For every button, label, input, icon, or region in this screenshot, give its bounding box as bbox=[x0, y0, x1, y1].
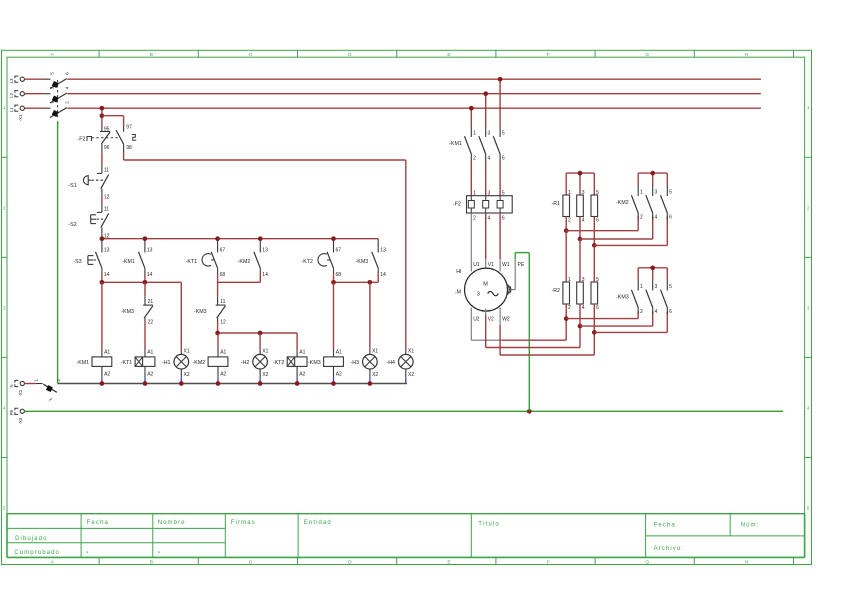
svg-text:98: 98 bbox=[126, 145, 132, 151]
svg-text:-KM3: -KM3 bbox=[616, 295, 629, 301]
contactor KM1 pole 3-4 bbox=[479, 127, 491, 162]
svg-text:-S2: -S2 bbox=[68, 222, 76, 228]
svg-text:A2: A2 bbox=[147, 372, 153, 378]
node rail tap pole2 bbox=[483, 91, 488, 96]
svg-text:Comprobado: Comprobado bbox=[14, 550, 60, 556]
node R1 star point bbox=[578, 171, 583, 176]
node R2 bottom junction bbox=[592, 330, 597, 335]
svg-text:-KM1: -KM1 bbox=[449, 141, 462, 147]
lamp H4 bbox=[386, 348, 414, 383]
lamp H3 bbox=[351, 348, 379, 383]
svg-text:3: 3 bbox=[477, 291, 480, 297]
node rail tap pole1 bbox=[469, 106, 474, 111]
svg-text:11: 11 bbox=[104, 167, 109, 173]
svg-text:-KT2: -KT2 bbox=[273, 360, 285, 366]
svg-text:X1: X1 bbox=[262, 348, 268, 354]
motor M 3-phase bbox=[455, 262, 525, 322]
svg-text:5: 5 bbox=[669, 190, 672, 196]
svg-text:2: 2 bbox=[568, 305, 571, 311]
svg-text:X2: X2 bbox=[184, 372, 190, 378]
svg-text:1: 1 bbox=[3, 105, 6, 110]
svg-text:M: M bbox=[483, 281, 488, 287]
node bus junction bbox=[143, 236, 148, 241]
main switch Q1 pole 1-2 bbox=[25, 101, 70, 118]
terminal L3 bbox=[9, 76, 24, 83]
svg-text:-KT2: -KT2 bbox=[302, 259, 314, 265]
svg-text:4: 4 bbox=[655, 214, 658, 220]
svg-text:V1: V1 bbox=[488, 262, 494, 268]
contactor KM2 pole 1-2 bbox=[616, 186, 643, 221]
svg-text:X2: X2 bbox=[262, 372, 268, 378]
svg-text:3: 3 bbox=[582, 190, 585, 196]
svg-text:-KM3: -KM3 bbox=[356, 259, 369, 265]
svg-text:12: 12 bbox=[104, 194, 110, 200]
svg-text:-KM1: -KM1 bbox=[122, 259, 135, 265]
svg-text:13: 13 bbox=[380, 247, 386, 253]
F2 trip box and label bbox=[78, 136, 120, 142]
svg-text:L2: L2 bbox=[9, 92, 14, 97]
svg-text:A1: A1 bbox=[299, 350, 305, 356]
wire R1 junction down to R2 pole2 bbox=[579, 239, 581, 282]
svg-text:A1: A1 bbox=[336, 350, 342, 356]
svg-text:3: 3 bbox=[655, 190, 658, 196]
node bus junction S3 bbox=[100, 236, 105, 241]
wire KT1-68 down bbox=[217, 274, 219, 297]
svg-text:-S1: -S1 bbox=[68, 183, 76, 189]
svg-text:E: E bbox=[447, 52, 450, 58]
node neutral bus junction bbox=[179, 381, 184, 386]
wire contact bus bbox=[102, 238, 378, 240]
svg-text:4: 4 bbox=[807, 405, 810, 410]
terminal L1 bbox=[9, 105, 24, 121]
svg-text:1: 1 bbox=[568, 190, 571, 196]
svg-text:-KM2: -KM2 bbox=[238, 259, 251, 265]
node neutral bus junction bbox=[100, 381, 105, 386]
node R1 bottom junction bbox=[564, 228, 569, 233]
svg-text:6: 6 bbox=[596, 305, 599, 311]
terminal PE bbox=[9, 408, 24, 424]
svg-text:1: 1 bbox=[473, 131, 476, 137]
timer coil KT1 bbox=[121, 350, 155, 384]
contactor KM3 pole 3-4 bbox=[646, 280, 658, 315]
svg-text:3: 3 bbox=[3, 305, 6, 310]
svg-text:H: H bbox=[745, 559, 749, 565]
node neutral bus junction bbox=[216, 381, 221, 386]
wire motor W2 to R2 bottom bbox=[500, 308, 594, 355]
wire S1 to S2 bbox=[101, 196, 103, 205]
node neutral bus junction bbox=[295, 381, 300, 386]
wire KM1 pole3 riser bbox=[499, 79, 501, 126]
svg-text:-KM2: -KM2 bbox=[193, 360, 206, 366]
node control tap bbox=[100, 106, 105, 111]
svg-text:-KM1: -KM1 bbox=[76, 360, 89, 366]
lamp H2 bbox=[241, 348, 269, 383]
wire node B down to KM2 coil bbox=[217, 333, 219, 350]
wire F2 pole3 to motor W1 bbox=[499, 213, 501, 272]
node A at KM1 bbox=[143, 280, 148, 285]
coil KM3 bbox=[308, 350, 343, 384]
svg-text:-S3: -S3 bbox=[73, 259, 81, 265]
svg-text:14: 14 bbox=[262, 272, 268, 278]
main switch N pole bbox=[25, 379, 62, 401]
contactor KM3 pole 1-2 bbox=[616, 280, 643, 315]
svg-text:12: 12 bbox=[220, 319, 226, 325]
svg-text:4: 4 bbox=[582, 218, 585, 224]
wire node A down to KM1 coil bbox=[101, 282, 103, 349]
node R1 bottom junction bbox=[592, 243, 597, 248]
wire R2 junction to KM3 pole3 bbox=[594, 312, 667, 333]
node C at KT2 bbox=[331, 280, 336, 285]
svg-text:14: 14 bbox=[380, 272, 386, 278]
svg-text:A2: A2 bbox=[104, 372, 110, 378]
pushbutton S1 (NC, mushroom) bbox=[68, 166, 109, 200]
wire node B down to KT2 coil bbox=[296, 333, 298, 350]
contactor KM2 pole 5-6 bbox=[661, 186, 673, 221]
svg-text:D: D bbox=[348, 559, 352, 565]
svg-text:4: 4 bbox=[582, 305, 585, 311]
svg-text:A2: A2 bbox=[336, 372, 342, 378]
svg-text:6: 6 bbox=[669, 309, 672, 315]
wire rail L2 bbox=[67, 93, 761, 95]
main switch mechanical link bbox=[57, 80, 59, 127]
resistor R1 pole3 bbox=[591, 190, 599, 224]
svg-text:Nombre: Nombre bbox=[158, 520, 186, 526]
svg-text:X2: X2 bbox=[372, 372, 378, 378]
node earth junction bbox=[527, 409, 532, 414]
svg-text:N: N bbox=[9, 384, 14, 387]
svg-text:1: 1 bbox=[568, 277, 571, 283]
svg-text:HI: HI bbox=[456, 269, 461, 275]
wire R2 pole2 bottom bbox=[579, 304, 581, 326]
wire earth bus green bbox=[24, 410, 783, 412]
svg-text:4: 4 bbox=[3, 405, 6, 410]
resistor R1 pole2 bbox=[577, 190, 585, 224]
wire S3 bottom to node A bbox=[101, 274, 103, 283]
svg-text:2: 2 bbox=[3, 205, 6, 210]
svg-text:5: 5 bbox=[502, 191, 505, 197]
svg-text:1: 1 bbox=[640, 284, 643, 290]
svg-text:4: 4 bbox=[488, 155, 491, 161]
svg-text:14: 14 bbox=[147, 272, 153, 278]
node neutral bus junction bbox=[331, 381, 336, 386]
svg-text:C: C bbox=[249, 559, 253, 565]
wire motor U2 to R2 bottom bbox=[471, 308, 566, 341]
svg-text:-H3: -H3 bbox=[351, 360, 360, 366]
svg-text:-X3: -X3 bbox=[18, 417, 23, 424]
node neutral bus junction bbox=[258, 381, 263, 386]
svg-text:-KM3: -KM3 bbox=[121, 309, 134, 315]
svg-text:-H1: -H1 bbox=[162, 360, 171, 366]
svg-text:1: 1 bbox=[640, 190, 643, 196]
wire R1 junction to KM2 pole3 bbox=[594, 217, 667, 246]
svg-text:13: 13 bbox=[104, 247, 110, 253]
wire F2-98 to lamp H4 bbox=[124, 152, 406, 350]
wire R1 junction to KM2 pole1 bbox=[566, 217, 638, 231]
wire node B horizontal bbox=[218, 332, 298, 334]
node KM2 star point bbox=[650, 171, 655, 176]
svg-text:A2: A2 bbox=[220, 372, 226, 378]
wire R2 junction to KM3 pole2 bbox=[580, 312, 653, 327]
svg-text:-X1: -X1 bbox=[18, 114, 23, 121]
wire rail L1 bbox=[67, 107, 761, 109]
wire KM2-14 down and across to KT1 column bbox=[218, 274, 261, 283]
svg-text:F: F bbox=[547, 559, 550, 565]
lamp H1 bbox=[162, 348, 190, 383]
node KM3 star point bbox=[650, 265, 655, 270]
contact KM1 13-14 (NO) bbox=[122, 239, 152, 278]
svg-text:F: F bbox=[547, 52, 550, 58]
terminal L2 bbox=[9, 91, 24, 98]
svg-text:97: 97 bbox=[126, 125, 132, 131]
svg-text:W2: W2 bbox=[502, 317, 510, 323]
wire R2 pole3 bottom bbox=[593, 304, 595, 332]
wire node A horizontal bbox=[102, 281, 181, 283]
svg-text:2: 2 bbox=[473, 155, 476, 161]
svg-text:5: 5 bbox=[596, 277, 599, 283]
svg-text:95: 95 bbox=[104, 126, 110, 132]
resistor R2 pole1 bbox=[551, 277, 571, 311]
svg-text:A1: A1 bbox=[104, 350, 110, 356]
wire node C down to lamp H3 bbox=[369, 282, 371, 349]
svg-text:Título: Título bbox=[478, 521, 500, 527]
wire F2 pole2 to motor V1 bbox=[485, 213, 487, 269]
svg-text:PE: PE bbox=[518, 262, 525, 268]
svg-text:-KT1: -KT1 bbox=[121, 360, 133, 366]
wire KM3 star bus bbox=[638, 268, 667, 280]
wire R1 junction down to R2 pole3 bbox=[593, 245, 595, 282]
svg-text:Núm:: Núm: bbox=[741, 522, 760, 528]
wire KM1 pole2 to overload F2 bbox=[485, 161, 487, 197]
svg-text:2: 2 bbox=[640, 309, 643, 315]
svg-text:A1: A1 bbox=[147, 350, 153, 356]
node bus junction bbox=[215, 236, 220, 241]
svg-text:3: 3 bbox=[582, 277, 585, 283]
svg-text:W1: W1 bbox=[502, 262, 510, 268]
svg-text:H: H bbox=[745, 52, 749, 58]
wire node A down to KM3 NC 21 bbox=[144, 282, 146, 296]
svg-text:5: 5 bbox=[669, 284, 672, 290]
wire S2 to bus bbox=[101, 235, 103, 239]
svg-text:B: B bbox=[150, 559, 153, 565]
svg-text:-R1: -R1 bbox=[551, 201, 560, 207]
contactor KM1 pole 1-2 bbox=[449, 127, 476, 162]
terminal N bbox=[9, 380, 24, 396]
svg-text:6: 6 bbox=[502, 216, 505, 222]
svg-text:-KM3: -KM3 bbox=[194, 309, 207, 315]
svg-text:11: 11 bbox=[104, 206, 109, 212]
resistor R2 pole2 bbox=[577, 277, 585, 311]
wire earth green vertical bbox=[57, 122, 59, 384]
wire motor V2 to R2 bottom bbox=[486, 309, 580, 348]
wire F2 pole1 to motor U1 (black) bbox=[470, 213, 472, 272]
wire R1 pole3 bottom bbox=[593, 217, 595, 246]
svg-text:U1: U1 bbox=[473, 262, 480, 268]
svg-text:6: 6 bbox=[669, 214, 672, 220]
wire R1 pole2 bottom bbox=[579, 217, 581, 240]
svg-text:14: 14 bbox=[104, 272, 110, 278]
svg-text:2: 2 bbox=[568, 218, 571, 224]
contactor KM2 pole 3-4 bbox=[646, 186, 658, 221]
svg-text:X1: X1 bbox=[372, 348, 378, 354]
svg-text:Dibujado: Dibujado bbox=[15, 536, 47, 542]
svg-text:67: 67 bbox=[220, 247, 226, 253]
svg-text:C: C bbox=[249, 52, 253, 58]
wire R1 junction down to R2 pole1 bbox=[565, 231, 567, 282]
node B at H2 column bbox=[258, 331, 263, 336]
contact KT1 67-68 (timed NO) bbox=[186, 239, 226, 278]
svg-text:A1: A1 bbox=[220, 350, 226, 356]
svg-text:X1: X1 bbox=[408, 348, 414, 354]
wire KM1 pole1 riser bbox=[470, 108, 472, 126]
svg-text:5: 5 bbox=[3, 505, 6, 510]
svg-text:-KM3: -KM3 bbox=[308, 360, 321, 366]
contact KM2 13-14 (NO) bbox=[238, 239, 268, 278]
node bus junction bbox=[331, 236, 336, 241]
svg-text:X2: X2 bbox=[408, 372, 414, 378]
pushbutton S3 (NO start) bbox=[73, 239, 109, 278]
svg-text:22: 22 bbox=[148, 319, 154, 325]
main switch Q1 pole 3-4 bbox=[25, 86, 70, 103]
svg-text:3: 3 bbox=[488, 191, 491, 197]
svg-text:-R2: -R2 bbox=[551, 288, 560, 294]
overload relay contact F2 95-96 (NC) bbox=[100, 126, 110, 152]
node neutral bus junction bbox=[368, 381, 373, 386]
svg-text:68: 68 bbox=[220, 272, 226, 278]
svg-text:68: 68 bbox=[336, 272, 342, 278]
svg-text:1: 1 bbox=[473, 191, 476, 197]
svg-text:5: 5 bbox=[596, 190, 599, 196]
svg-text:L3: L3 bbox=[9, 78, 14, 83]
svg-text:2: 2 bbox=[807, 205, 810, 210]
contact KM3 21-22 (NC) bbox=[121, 296, 153, 325]
wire KM2 star bus bbox=[638, 173, 667, 185]
contactor KM1 pole 5-6 bbox=[493, 127, 505, 162]
coil KM1 bbox=[76, 350, 111, 384]
svg-text:13: 13 bbox=[262, 247, 268, 253]
wire KM1 pole1 to overload F2 bbox=[470, 161, 472, 197]
wire KT2-68 down to node C bbox=[333, 274, 335, 283]
svg-text:PE: PE bbox=[9, 410, 14, 416]
timer coil KT2 bbox=[273, 350, 307, 384]
wire R2 junction to KM3 pole1 bbox=[566, 312, 638, 319]
svg-text:E: E bbox=[447, 559, 450, 565]
svg-text:B: B bbox=[150, 52, 153, 58]
svg-text:11: 11 bbox=[220, 299, 225, 305]
wire KM1 contact bottom to node A bbox=[144, 274, 146, 283]
wire F2-96 to S1 bbox=[101, 152, 103, 166]
wire neutral control bus bbox=[58, 383, 407, 385]
svg-text:-H4: -H4 bbox=[386, 360, 395, 366]
wire rail L3 bbox=[67, 78, 761, 80]
wire KM1 pole2 riser bbox=[485, 94, 487, 127]
node B at KM2 coil column bbox=[215, 331, 220, 336]
svg-text:2: 2 bbox=[640, 214, 643, 220]
wire motor PE to earth (green) bbox=[515, 253, 529, 412]
contact KM3 11-12 (NC) bbox=[194, 296, 226, 325]
svg-text:6: 6 bbox=[596, 218, 599, 224]
wire node B down to lamp H2 bbox=[259, 333, 261, 350]
svg-text:V2: V2 bbox=[488, 317, 494, 323]
wire R1 junction to KM2 pole2 bbox=[580, 217, 653, 240]
wire KM3 22 to KT1 coil bbox=[144, 322, 146, 350]
wire KM3-14 down and across bbox=[334, 274, 379, 283]
svg-text:G: G bbox=[646, 559, 650, 565]
wire R1 star bus bbox=[566, 173, 594, 195]
wire node A down to lamp H1 bbox=[180, 282, 182, 349]
wire R1 pole1 bottom bbox=[565, 217, 567, 231]
svg-text:3: 3 bbox=[807, 305, 810, 310]
svg-text:D: D bbox=[348, 52, 352, 58]
main switch Q1 pole 5-6 bbox=[25, 72, 70, 89]
svg-text:-M: -M bbox=[455, 289, 461, 295]
svg-text:Firmas: Firmas bbox=[231, 520, 256, 526]
svg-text:Archivo:: Archivo: bbox=[654, 546, 684, 552]
svg-text:Entidad: Entidad bbox=[304, 520, 332, 526]
svg-text:Fecha: Fecha bbox=[654, 522, 676, 528]
svg-text:67: 67 bbox=[336, 247, 342, 253]
svg-text:-F2: -F2 bbox=[78, 136, 86, 142]
node A at S3 bbox=[100, 280, 105, 285]
svg-text:5: 5 bbox=[807, 505, 810, 510]
svg-text:3: 3 bbox=[655, 284, 658, 290]
wire control tap from rail L1 bbox=[101, 108, 103, 126]
node R2 bottom junction bbox=[578, 324, 583, 329]
node R1 bottom junction bbox=[578, 237, 583, 242]
svg-text:96: 96 bbox=[104, 145, 110, 151]
node branch to F2 NO bbox=[100, 113, 105, 118]
node C at H3 column bbox=[368, 280, 373, 285]
svg-text:2: 2 bbox=[473, 216, 476, 222]
svg-text:6: 6 bbox=[502, 155, 505, 161]
svg-text:U2: U2 bbox=[473, 317, 480, 323]
pushbutton S2 (NC) bbox=[68, 205, 109, 239]
resistor R2 pole3 bbox=[591, 277, 599, 311]
node R2 bottom junction bbox=[564, 316, 569, 321]
overload relay F2 (thermal block) bbox=[453, 191, 512, 222]
wire node C down to KM3 coil bbox=[333, 282, 335, 349]
wire branch to F2 97 bbox=[102, 116, 124, 126]
wire R2 pole1 bottom bbox=[565, 304, 567, 319]
contact KT2 67-68 (timed NO) bbox=[302, 239, 342, 278]
svg-text:-KT1: -KT1 bbox=[186, 259, 198, 265]
coil KM2 bbox=[193, 350, 228, 384]
svg-text:13: 13 bbox=[147, 247, 153, 253]
svg-text:A2: A2 bbox=[299, 372, 305, 378]
svg-text:3: 3 bbox=[488, 131, 491, 137]
contactor KM3 pole 5-6 bbox=[661, 280, 673, 315]
node rail tap pole3 bbox=[498, 77, 503, 82]
svg-text:-F2: -F2 bbox=[453, 201, 461, 207]
overload relay contact F2 97-98 (NO) bbox=[116, 125, 136, 152]
svg-text:Fecha: Fecha bbox=[87, 520, 109, 526]
node neutral bus junction bbox=[143, 381, 148, 386]
svg-text:4: 4 bbox=[655, 309, 658, 315]
svg-text:5: 5 bbox=[502, 131, 505, 137]
resistor R1 pole1 bbox=[551, 190, 571, 224]
svg-text:4: 4 bbox=[488, 216, 491, 222]
svg-text:-X2: -X2 bbox=[18, 389, 23, 396]
svg-text:L1: L1 bbox=[9, 107, 14, 112]
wire KM1 pole3 to overload F2 bbox=[499, 161, 501, 197]
node bus junction bbox=[258, 236, 263, 241]
wire KM3-12 to node B bbox=[217, 322, 219, 333]
svg-text:X1: X1 bbox=[184, 348, 190, 354]
svg-text:G: G bbox=[646, 52, 650, 58]
svg-text:1: 1 bbox=[807, 105, 810, 110]
svg-text:21: 21 bbox=[148, 299, 154, 305]
svg-text:-KM2: -KM2 bbox=[616, 200, 629, 206]
contact KM3 13-14 (NO) bbox=[356, 239, 386, 278]
